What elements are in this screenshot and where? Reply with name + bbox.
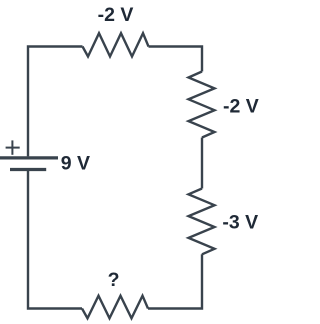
battery plus sign bbox=[6, 140, 20, 154]
resistor R2 (right upper, -2 V) bbox=[189, 72, 215, 138]
wire left vertical + top wire to R1 bbox=[28, 47, 83, 157]
battery B1 long plate (positive) bbox=[0, 156, 58, 159]
svg-text:?: ? bbox=[108, 269, 120, 291]
svg-text:-2 V: -2 V bbox=[98, 4, 134, 26]
wire bottom left + left vertical up to battery bbox=[28, 171, 82, 309]
svg-text:-2 V: -2 V bbox=[223, 96, 259, 118]
wire top right + right vertical down to R2 bbox=[149, 47, 203, 72]
svg-text:-3 V: -3 V bbox=[222, 212, 258, 234]
wire right bottom + bottom wire to R4 bbox=[148, 254, 202, 308]
wire between R2 and R3 bbox=[201, 138, 203, 189]
resistor R3 (right lower, -3 V) bbox=[189, 189, 215, 255]
svg-text:9 V: 9 V bbox=[61, 152, 90, 174]
resistor R4 (bottom, ?) bbox=[82, 296, 148, 319]
resistor R1 (top, -2 V) bbox=[83, 33, 149, 56]
battery B1 short plate (negative) bbox=[10, 168, 46, 171]
